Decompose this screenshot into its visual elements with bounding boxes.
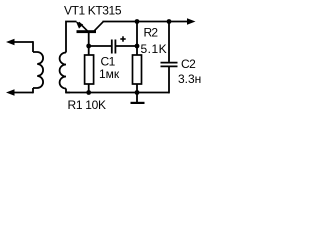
capacitor C2 plates (161, 63, 178, 67)
output arrow (187, 18, 196, 25)
wire: top arrow to primary winding (32, 41, 34, 52)
inductor L primary winding (33, 52, 43, 88)
wire: primary winding bottom to bottom arrow (32, 88, 34, 93)
inductor L secondary winding (60, 53, 66, 89)
svg-text:R2: R2 (144, 26, 159, 40)
junction dot: R2 bottom / ground (135, 90, 140, 95)
resistor R2 (133, 55, 142, 84)
wire: emitter horizontal and down to secondary winding (66, 22, 77, 53)
capacitor C1 plates (112, 40, 116, 54)
transistor VT1 base lead (88, 33, 90, 46)
transistor VT1 emitter with arrow (76, 21, 88, 31)
svg-text:C2: C2 (181, 57, 196, 71)
wire: C1 right plate to R2 branch (116, 45, 136, 47)
svg-text:R1 10K: R1 10K (68, 98, 107, 112)
wire: R1 bottom lead (88, 84, 90, 93)
transistor VT1 collector (94, 22, 103, 31)
wire: R2 bottom lead (136, 84, 138, 93)
ground (131, 93, 145, 103)
wire: C2 bottom to bottom rail (168, 67, 170, 93)
junction dot: top rail / C2 branch (167, 19, 172, 24)
antenna arrow bottom (6, 89, 33, 96)
transistor VT1 base bar (77, 30, 97, 33)
wire: R1 top lead (88, 46, 90, 55)
junction dot: R1 bottom (86, 90, 91, 95)
svg-text:1мк: 1мк (99, 67, 120, 81)
antenna arrow top (6, 39, 33, 46)
svg-text:VT1 KT315: VT1 KT315 (64, 4, 122, 18)
resistor R1 (85, 55, 94, 84)
wire: base junction to C1 left plate (89, 45, 111, 47)
junction dot: top rail / R2 branch (135, 19, 140, 24)
junction dot: C1 right / R2 branch (135, 44, 140, 49)
wire: bottom rail (66, 92, 169, 94)
junction dot: base / C1 / R1 (86, 44, 91, 49)
wire: C2 branch from top rail (168, 22, 170, 62)
plus sign (C1 polarity) (120, 36, 125, 41)
wire: top supply rail (103, 21, 188, 23)
svg-text:5.1K: 5.1K (141, 42, 168, 56)
wire: R2 branch from top rail (136, 22, 138, 56)
svg-text:3.3н: 3.3н (178, 72, 201, 86)
wire: secondary winding bottom corner (66, 89, 70, 93)
